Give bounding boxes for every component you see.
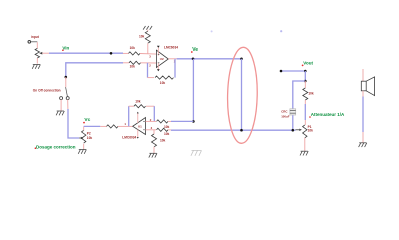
- wire Ve down to U1: [192, 59, 194, 122]
- junction bottom net: [240, 129, 243, 132]
- connector J1 (input): [28, 41, 31, 44]
- svg-text:U1: U1: [138, 124, 142, 128]
- wire to P2 wiper: [68, 109, 79, 138]
- annotation ellipse: [227, 47, 259, 144]
- resistor 10k R row B: [129, 61, 140, 64]
- wire input to pot: [31, 41, 38, 43]
- svg-text:On Off connection: On Off connection: [33, 88, 61, 92]
- resistor 10k U2 feedback: [155, 76, 174, 79]
- wire U1 pin2 stub: [146, 120, 157, 122]
- op-amp U2: [149, 45, 178, 71]
- svg-text:LMC6034: LMC6034: [164, 45, 178, 49]
- feedback U2: left vertical: [147, 63, 149, 78]
- junction on Vin wire: [110, 52, 113, 55]
- resistor 10k vertical (top bias): [147, 30, 149, 32]
- ground under P1: [300, 151, 308, 155]
- svg-text:10k: 10k: [130, 65, 136, 69]
- svg-text:10k: 10k: [164, 125, 170, 129]
- svg-text:LMC6034: LMC6034: [122, 136, 136, 140]
- resistor 10k (Vout divider): [304, 81, 306, 88]
- ground under speaker: [359, 143, 367, 147]
- wire right pin down: [67, 100, 69, 109]
- svg-text:10k: 10k: [130, 46, 136, 50]
- connector On/Off pin circles: [60, 97, 70, 100]
- speck artifact right: [280, 30, 282, 32]
- wire red drop to switch: [65, 77, 67, 87]
- op-amp U1 (mirrored): [122, 112, 152, 140]
- ground under 10k: [149, 153, 157, 157]
- svg-text:100uF: 100uF: [281, 114, 290, 118]
- wire vertical inside ellipse: [241, 59, 243, 130]
- svg-text:10k: 10k: [160, 139, 166, 143]
- wiper arrow P1: [296, 129, 300, 131]
- svg-text:Vout: Vout: [303, 60, 313, 65]
- wire cap branch: [293, 81, 306, 109]
- potentiometer volume (input pot): [35, 48, 39, 58]
- wire Vout row: [281, 70, 305, 72]
- wire to P1: [304, 104, 306, 120]
- svg-text:P2: P2: [87, 132, 91, 136]
- ground top (inverted): [143, 26, 152, 30]
- resistor 10k R row A: [129, 52, 140, 55]
- svg-text:U2: U2: [160, 57, 164, 61]
- wire Vout down: [304, 71, 306, 81]
- resistor 10k (Vc to U1): [107, 125, 119, 128]
- feedback U1: left vertical: [128, 106, 130, 126]
- svg-text:10k: 10k: [135, 100, 141, 104]
- junction row B drop: [65, 76, 68, 79]
- svg-text:Attenuateur 1/A: Attenuateur 1/A: [311, 112, 345, 117]
- resistor 10k U1 feedback: [134, 105, 145, 108]
- svg-text:Vc: Vc: [84, 117, 90, 123]
- svg-text:10k: 10k: [87, 136, 93, 140]
- svg-text:CRC: CRC: [281, 109, 288, 113]
- ground faint gray: [191, 150, 202, 155]
- wire left pin to ground: [60, 100, 62, 111]
- svg-text:10k: 10k: [308, 129, 314, 133]
- svg-text:Ve: Ve: [192, 47, 198, 53]
- ground under On/Off: [56, 111, 64, 115]
- speaker LS1: [361, 69, 374, 143]
- junction Ve row right: [240, 58, 243, 61]
- ground under P2: [78, 150, 86, 154]
- resistor 10k U1 pin3: [157, 128, 168, 131]
- svg-text:10k: 10k: [160, 81, 166, 85]
- feedback U2: right vertical: [174, 59, 176, 78]
- speck artifact left: [211, 30, 213, 32]
- wire pin2 to Ve drop: [168, 120, 171, 122]
- feedback U1: right vertical: [153, 106, 155, 121]
- svg-text:10k: 10k: [164, 132, 170, 136]
- svg-text:10k: 10k: [308, 91, 314, 95]
- potentiometer P2: [79, 137, 81, 139]
- svg-text:Dosage correction: Dosage correction: [36, 145, 76, 150]
- wire long bottom net: [168, 129, 171, 131]
- wire Vin row A: [49, 52, 123, 54]
- resistor 10k U1 pin3 to ground: [153, 130, 155, 134]
- wire cap to bottom net: [292, 115, 294, 130]
- svg-text:input: input: [31, 35, 40, 39]
- wire Vc row: [84, 125, 101, 127]
- resistor 10k U1 pin2: [157, 120, 168, 123]
- wire U2 output: [168, 58, 176, 60]
- capacitor CRC 100uF: [290, 109, 296, 115]
- ground under input pot: [32, 65, 40, 69]
- wire row B with drop: [66, 63, 123, 77]
- svg-text:10k: 10k: [139, 34, 145, 38]
- wire U1 pin3 stub: [146, 129, 157, 131]
- potentiometer P1: [303, 125, 307, 138]
